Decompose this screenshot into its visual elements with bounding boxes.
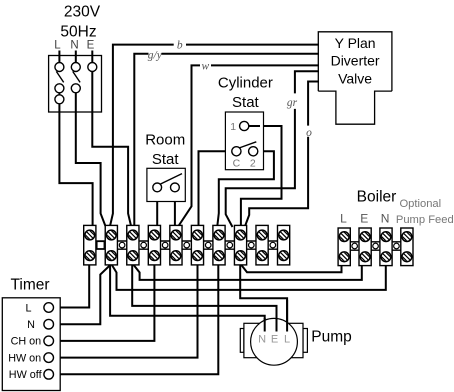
svg-text:2: 2 [250, 158, 256, 170]
svg-text:HW off: HW off [9, 369, 43, 381]
svg-text:b: b [177, 39, 183, 51]
svg-text:L: L [284, 334, 290, 346]
svg-text:Optional: Optional [399, 198, 441, 210]
svg-text:L: L [25, 302, 31, 314]
svg-text:C: C [233, 158, 241, 170]
svg-text:E: E [87, 40, 95, 52]
svg-text:gr: gr [287, 97, 298, 109]
svg-text:Valve: Valve [338, 71, 372, 87]
svg-text:HW on: HW on [8, 352, 41, 364]
svg-text:CH on: CH on [11, 336, 42, 348]
svg-text:Stat: Stat [152, 151, 180, 168]
svg-text:50Hz: 50Hz [60, 24, 96, 41]
svg-text:g/y: g/y [148, 49, 163, 61]
svg-text:Pump Feed: Pump Feed [396, 214, 454, 226]
svg-text:Pump: Pump [311, 328, 352, 345]
svg-text:Timer: Timer [10, 276, 49, 293]
svg-text:N: N [27, 319, 35, 331]
svg-text:N: N [381, 212, 390, 226]
svg-text:Stat: Stat [232, 94, 260, 111]
svg-text:o: o [306, 127, 312, 139]
svg-text:Cylinder: Cylinder [218, 74, 273, 91]
svg-text:Diverter: Diverter [331, 52, 380, 68]
svg-text:230V: 230V [64, 4, 101, 21]
svg-text:E: E [271, 334, 278, 346]
svg-text:Room: Room [145, 131, 185, 148]
svg-text:1: 1 [230, 121, 236, 133]
svg-text:Boiler: Boiler [357, 189, 397, 206]
svg-text:N: N [70, 40, 78, 52]
svg-text:w: w [201, 61, 209, 73]
svg-text:Y Plan: Y Plan [335, 35, 376, 51]
svg-text:L: L [340, 212, 347, 226]
svg-text:E: E [360, 212, 368, 226]
svg-text:L: L [54, 40, 61, 52]
svg-text:N: N [258, 334, 266, 346]
